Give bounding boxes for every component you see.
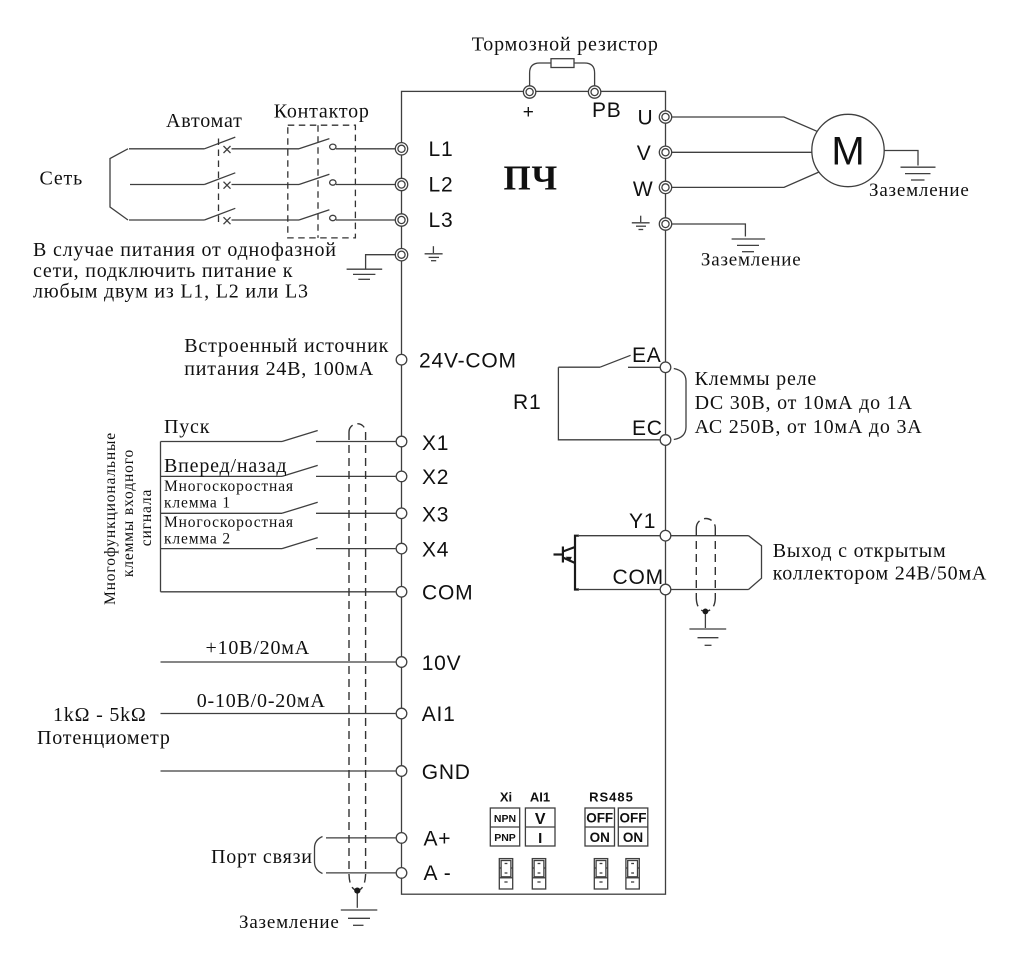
svg-text:сигнала: сигнала bbox=[138, 489, 155, 546]
svg-text:Тормозной резистор: Тормозной резистор bbox=[472, 33, 659, 55]
svg-text:Многоскоростная: Многоскоростная bbox=[164, 514, 294, 531]
svg-text:Заземление: Заземление bbox=[869, 180, 970, 201]
wire mains phase 3 bbox=[129, 219, 204, 221]
svg-text:+10В/20мА: +10В/20мА bbox=[206, 637, 310, 659]
contactor mechanical link bbox=[317, 125, 319, 238]
svg-text:OFF: OFF bbox=[586, 811, 613, 826]
svg-text:любым двум из L1, L2 или L3: любым двум из L1, L2 или L3 bbox=[33, 281, 309, 303]
svg-text:W: W bbox=[633, 178, 654, 201]
switch X3 bbox=[161, 502, 396, 513]
svg-text:AI1: AI1 bbox=[422, 703, 456, 726]
ground shield left bbox=[341, 910, 378, 925]
svg-text:EA: EA bbox=[632, 344, 662, 367]
terminal 10V bbox=[396, 657, 407, 668]
wire A- bbox=[326, 872, 396, 874]
option box RS485 switch 1 bbox=[585, 808, 615, 846]
terminal COM bbox=[396, 587, 407, 598]
svg-text:L2: L2 bbox=[429, 174, 454, 197]
svg-text:COM: COM bbox=[422, 582, 473, 605]
terminal PB bbox=[588, 86, 600, 98]
label Встроенный источник питания bbox=[184, 335, 389, 380]
terminal EA bbox=[660, 362, 671, 373]
wire brake + lead bbox=[530, 63, 551, 87]
svg-text:Y1: Y1 bbox=[629, 510, 656, 533]
svg-text:Многофункциональные: Многофункциональные bbox=[102, 432, 119, 605]
label Многоскоростная клемма 2 bbox=[164, 514, 294, 548]
switch X4 bbox=[161, 538, 396, 549]
junction shield right bbox=[703, 609, 709, 615]
svg-text:PB: PB bbox=[592, 99, 622, 122]
svg-text:COM: COM bbox=[613, 566, 664, 589]
svg-text:сети, подключить питание к: сети, подключить питание к bbox=[33, 260, 293, 282]
contactor pole 3 bbox=[299, 210, 395, 221]
svg-text:AI1: AI1 bbox=[530, 790, 550, 805]
wire AI1 bbox=[161, 713, 396, 715]
ground motor bbox=[901, 167, 936, 180]
svg-text:питания 24В, 100мА: питания 24В, 100мА bbox=[184, 358, 374, 380]
svg-text:ON: ON bbox=[590, 830, 610, 845]
cable bracket right bbox=[749, 536, 762, 590]
wire Y1 right bbox=[671, 535, 749, 537]
svg-text:Встроенный источник: Встроенный источник bbox=[184, 335, 389, 357]
svg-text:Вперед/назад: Вперед/назад bbox=[164, 455, 287, 477]
contactor frame bbox=[288, 125, 356, 238]
ground right of box bbox=[732, 239, 766, 252]
option box RS485 switch 2 bbox=[618, 808, 648, 846]
wire A+ bbox=[326, 837, 396, 839]
terminal 24V-COM bbox=[396, 354, 407, 365]
svg-text:ON: ON bbox=[623, 830, 643, 845]
wire COM right rail left bbox=[578, 589, 660, 591]
contactor pole 2 bbox=[299, 174, 395, 185]
svg-text:Автомат: Автомат bbox=[166, 110, 243, 132]
svg-text:L3: L3 bbox=[429, 209, 454, 232]
multifunction input common bracket bbox=[160, 442, 162, 592]
svg-text:V: V bbox=[637, 142, 652, 165]
wire PE right to ground bbox=[672, 224, 746, 237]
svg-text:I: I bbox=[538, 830, 542, 847]
wire COM right bbox=[671, 589, 749, 591]
port bracket bbox=[315, 837, 323, 874]
terminal X1 bbox=[396, 436, 407, 447]
svg-text:R1: R1 bbox=[513, 391, 541, 414]
svg-text:RS485: RS485 bbox=[589, 790, 634, 805]
svg-text:X4: X4 bbox=[422, 539, 449, 562]
svg-text:EC: EC bbox=[632, 417, 663, 440]
svg-text:Выход с открытым: Выход с открытым bbox=[773, 540, 947, 562]
svg-text:Многоскоростная: Многоскоростная bbox=[164, 478, 294, 495]
terminal L2 bbox=[395, 178, 407, 190]
wire shield left to ground bbox=[356, 894, 358, 908]
terminal EC bbox=[660, 435, 671, 446]
terminal + bbox=[523, 86, 535, 98]
svg-text:коллектором 24В/50мА: коллектором 24В/50мА bbox=[773, 563, 987, 585]
terminal A- bbox=[396, 868, 407, 879]
motor M1 bbox=[812, 114, 884, 186]
svg-text:PNP: PNP bbox=[494, 832, 516, 844]
svg-text:DC 30В, от 10мА до 1А: DC 30В, от 10мА до 1А bbox=[695, 392, 913, 414]
svg-text:В случае питания от однофазной: В случае питания от однофазной bbox=[33, 239, 337, 261]
breaker QF pole 1 bbox=[204, 137, 299, 153]
svg-text:V: V bbox=[535, 811, 546, 828]
svg-text:Xi: Xi bbox=[500, 790, 512, 805]
terminal W bbox=[659, 181, 671, 193]
terminal AI1 bbox=[396, 708, 407, 719]
wire W bbox=[672, 172, 819, 187]
terminal PE right bbox=[659, 218, 671, 230]
junction shield left bbox=[354, 888, 360, 894]
transistor Q1 bbox=[554, 536, 580, 590]
wire Y1 left bbox=[578, 535, 660, 537]
terminal V bbox=[659, 146, 671, 158]
label open collector output bbox=[773, 540, 987, 585]
svg-text:M: M bbox=[831, 130, 864, 174]
svg-text:+: + bbox=[523, 102, 535, 123]
terminal X2 bbox=[396, 471, 407, 482]
svg-text:Заземление: Заземление bbox=[239, 912, 340, 933]
wire brake PB lead bbox=[574, 63, 595, 87]
terminal GND bbox=[396, 766, 407, 777]
svg-text:1kΩ - 5kΩ: 1kΩ - 5kΩ bbox=[53, 704, 147, 726]
terminal COM right bbox=[660, 584, 671, 595]
terminal L3 bbox=[395, 214, 407, 226]
svg-text:Потенциометр: Потенциометр bbox=[37, 727, 171, 749]
svg-text:ПЧ: ПЧ bbox=[504, 159, 559, 198]
terminal PE left bbox=[395, 249, 407, 261]
earth symbol label right bbox=[632, 216, 650, 230]
shield capsule right bbox=[696, 519, 715, 612]
svg-text:Порт связи: Порт связи bbox=[211, 846, 313, 868]
svg-text:Пуск: Пуск bbox=[164, 416, 210, 438]
ground shield right bbox=[689, 629, 726, 645]
shield capsule left bbox=[349, 424, 366, 891]
svg-text:NPN: NPN bbox=[494, 813, 516, 825]
label relay ratings bbox=[695, 368, 923, 438]
wire mains phase 2 bbox=[130, 184, 204, 186]
svg-text:Заземление: Заземление bbox=[701, 250, 802, 271]
svg-text:АС 250В, от 10мА до 3А: АС 250В, от 10мА до 3А bbox=[695, 416, 923, 438]
option box NPN/PNP bbox=[490, 808, 519, 846]
svg-text:Контактор: Контактор bbox=[274, 100, 370, 122]
terminal U bbox=[659, 111, 671, 123]
terminal L1 bbox=[395, 143, 407, 155]
svg-text:OFF: OFF bbox=[620, 811, 647, 826]
terminal Y1 bbox=[660, 530, 671, 541]
breaker QF pole 2 bbox=[204, 173, 299, 189]
wire PE left bbox=[366, 255, 396, 269]
contactor pole 1 bbox=[299, 139, 395, 150]
svg-text:X1: X1 bbox=[422, 432, 449, 455]
earth symbol label left bbox=[425, 246, 443, 261]
terminal X3 bbox=[396, 508, 407, 519]
dip switch S3 bbox=[594, 859, 607, 889]
inverter enclosure ПЧ bbox=[402, 91, 666, 894]
relay bracket bbox=[674, 369, 686, 440]
svg-text:A -: A - bbox=[424, 862, 452, 885]
svg-text:клеммы входного: клеммы входного bbox=[120, 449, 137, 577]
label potentiometer bbox=[37, 704, 171, 749]
wire motor earth bbox=[884, 151, 918, 166]
switch X2 Вперед/назад bbox=[161, 465, 396, 476]
wire U bbox=[672, 117, 817, 131]
wire V bbox=[672, 151, 812, 153]
svg-text:Сеть: Сеть bbox=[40, 168, 84, 190]
svg-text:U: U bbox=[638, 107, 654, 130]
svg-text:L1: L1 bbox=[429, 138, 454, 161]
note single phase supply bbox=[33, 239, 337, 303]
dip switch S2 bbox=[532, 859, 545, 889]
option box V/I bbox=[525, 808, 555, 847]
resistor brake bbox=[551, 59, 574, 68]
svg-text:0-10В/0-20мА: 0-10В/0-20мА bbox=[197, 690, 326, 712]
mains bracket bbox=[110, 149, 128, 220]
svg-text:10V: 10V bbox=[422, 652, 462, 675]
svg-text:A+: A+ bbox=[424, 828, 452, 851]
dip switch S4 bbox=[626, 859, 639, 889]
terminal X4 bbox=[396, 543, 407, 554]
svg-text:24V-COM: 24V-COM bbox=[419, 350, 517, 373]
wire shield right to ground bbox=[704, 614, 706, 628]
ground left of box bbox=[347, 269, 383, 279]
wire 10V bbox=[161, 661, 396, 663]
svg-text:GND: GND bbox=[422, 761, 471, 784]
breaker mechanical link bbox=[218, 139, 220, 223]
label Многофункциональные клеммы входного сигнала bbox=[102, 432, 155, 605]
wire GND bbox=[161, 770, 396, 772]
label Многоскоростная клемма 1 bbox=[164, 478, 294, 512]
svg-text:клемма 2: клемма 2 bbox=[164, 531, 231, 548]
wire COM bbox=[161, 591, 396, 593]
svg-text:Клеммы реле: Клеммы реле bbox=[695, 368, 817, 390]
svg-text:X3: X3 bbox=[422, 504, 449, 527]
dip switch S1 bbox=[499, 859, 512, 889]
terminal A+ bbox=[396, 833, 407, 844]
breaker QF pole 3 bbox=[204, 208, 299, 224]
wire mains phase 1 bbox=[129, 148, 204, 150]
switch X1 Пуск bbox=[161, 431, 396, 442]
svg-text:X2: X2 bbox=[422, 466, 449, 489]
svg-text:клемма 1: клемма 1 bbox=[164, 495, 231, 512]
relay R1 contact bbox=[558, 355, 660, 440]
